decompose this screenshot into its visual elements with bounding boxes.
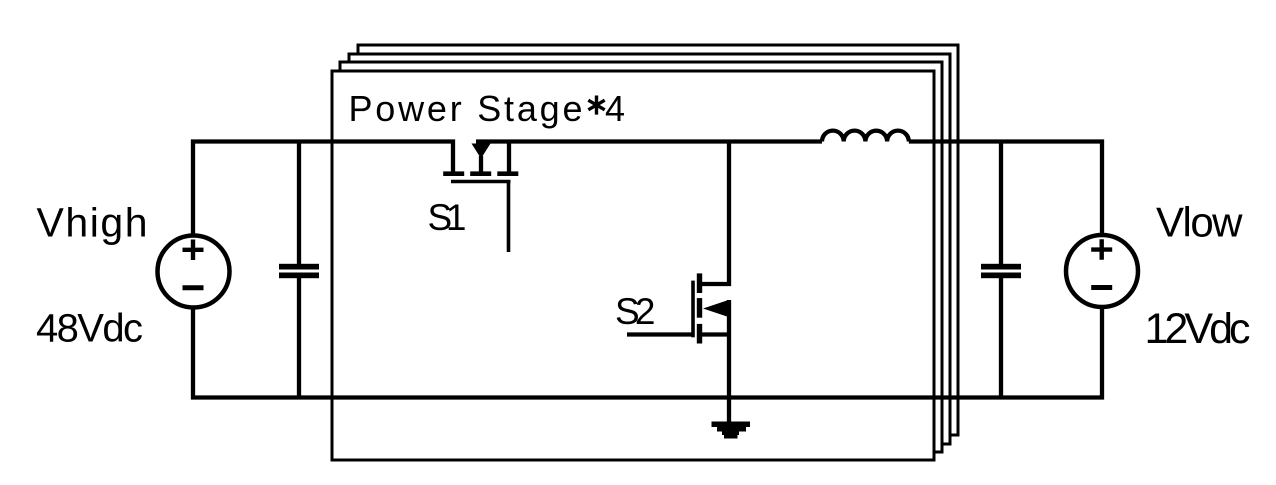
wire: inductor to Vlow top lead — [909, 142, 1102, 236]
power stage sheet 3 — [349, 54, 950, 444]
capacitor Cout top plate — [981, 264, 1021, 270]
svg-text:Power Stage: Power Stage — [349, 88, 583, 129]
mosfet S1 source stub — [507, 141, 511, 172]
source Vlow minus — [1091, 285, 1112, 290]
svg-text:S2: S2 — [615, 291, 656, 332]
wire: switch node down to S2 drain — [702, 140, 729, 285]
asterisk of *4 — [588, 96, 604, 115]
capacitor Cout branch top — [999, 140, 1003, 265]
source Vhigh plus — [183, 240, 204, 261]
mosfet S2 source pad — [697, 324, 702, 344]
wire: S2 source/body down to ground — [727, 300, 731, 423]
mosfet S2 source stub — [702, 332, 729, 336]
capacitor Cin bottom plate — [279, 273, 319, 279]
source Vlow plus — [1091, 239, 1112, 259]
wire: top rail from S1 source to inductor — [476, 139, 822, 143]
source Vhigh minus — [183, 285, 204, 290]
source Vlow circle — [1066, 235, 1138, 307]
capacitor Cout bottom plate — [981, 273, 1021, 279]
mosfet S1 body stub — [479, 156, 483, 172]
mosfet S1 gate plate — [451, 180, 511, 184]
mosfet S2 body pad — [697, 298, 702, 318]
svg-text:S1: S1 — [428, 197, 467, 238]
power stage sheet 1 (front) — [332, 71, 934, 460]
mosfet S1 source pad — [497, 171, 518, 176]
svg-text:Vlow: Vlow — [1156, 199, 1243, 246]
source Vhigh circle — [158, 236, 230, 308]
ground — [712, 422, 751, 428]
mosfet S2 drain pad — [697, 273, 702, 293]
capacitor Cout branch bottom — [999, 278, 1003, 400]
mosfet S1 drain pad — [443, 171, 464, 176]
mosfet S1 gate lead — [507, 182, 511, 253]
mosfet S2 gate lead — [627, 332, 693, 336]
mosfet S2 body arrow — [703, 301, 727, 317]
power stage sheet 4 (back) — [358, 45, 958, 435]
svg-text:Vhigh: Vhigh — [37, 200, 148, 246]
svg-text:4: 4 — [605, 88, 625, 129]
capacitor Cin branch bottom — [297, 278, 301, 400]
capacitor Cin top plate — [279, 264, 319, 270]
mosfet S1 body pad — [470, 171, 491, 176]
inductor L — [822, 131, 909, 142]
wire: bottom rail Vhigh to Vlow — [193, 307, 1102, 398]
power stage sheet 2 — [340, 62, 942, 452]
svg-text:12Vdc: 12Vdc — [1145, 305, 1251, 353]
capacitor Cin branch top — [297, 140, 301, 265]
svg-text:48Vdc: 48Vdc — [36, 307, 143, 351]
mosfet S2 gate plate — [691, 281, 695, 338]
wire: Vhigh top lead + top rail to S1 drain bend — [193, 142, 453, 236]
mosfet S1 body arrow — [472, 144, 491, 159]
